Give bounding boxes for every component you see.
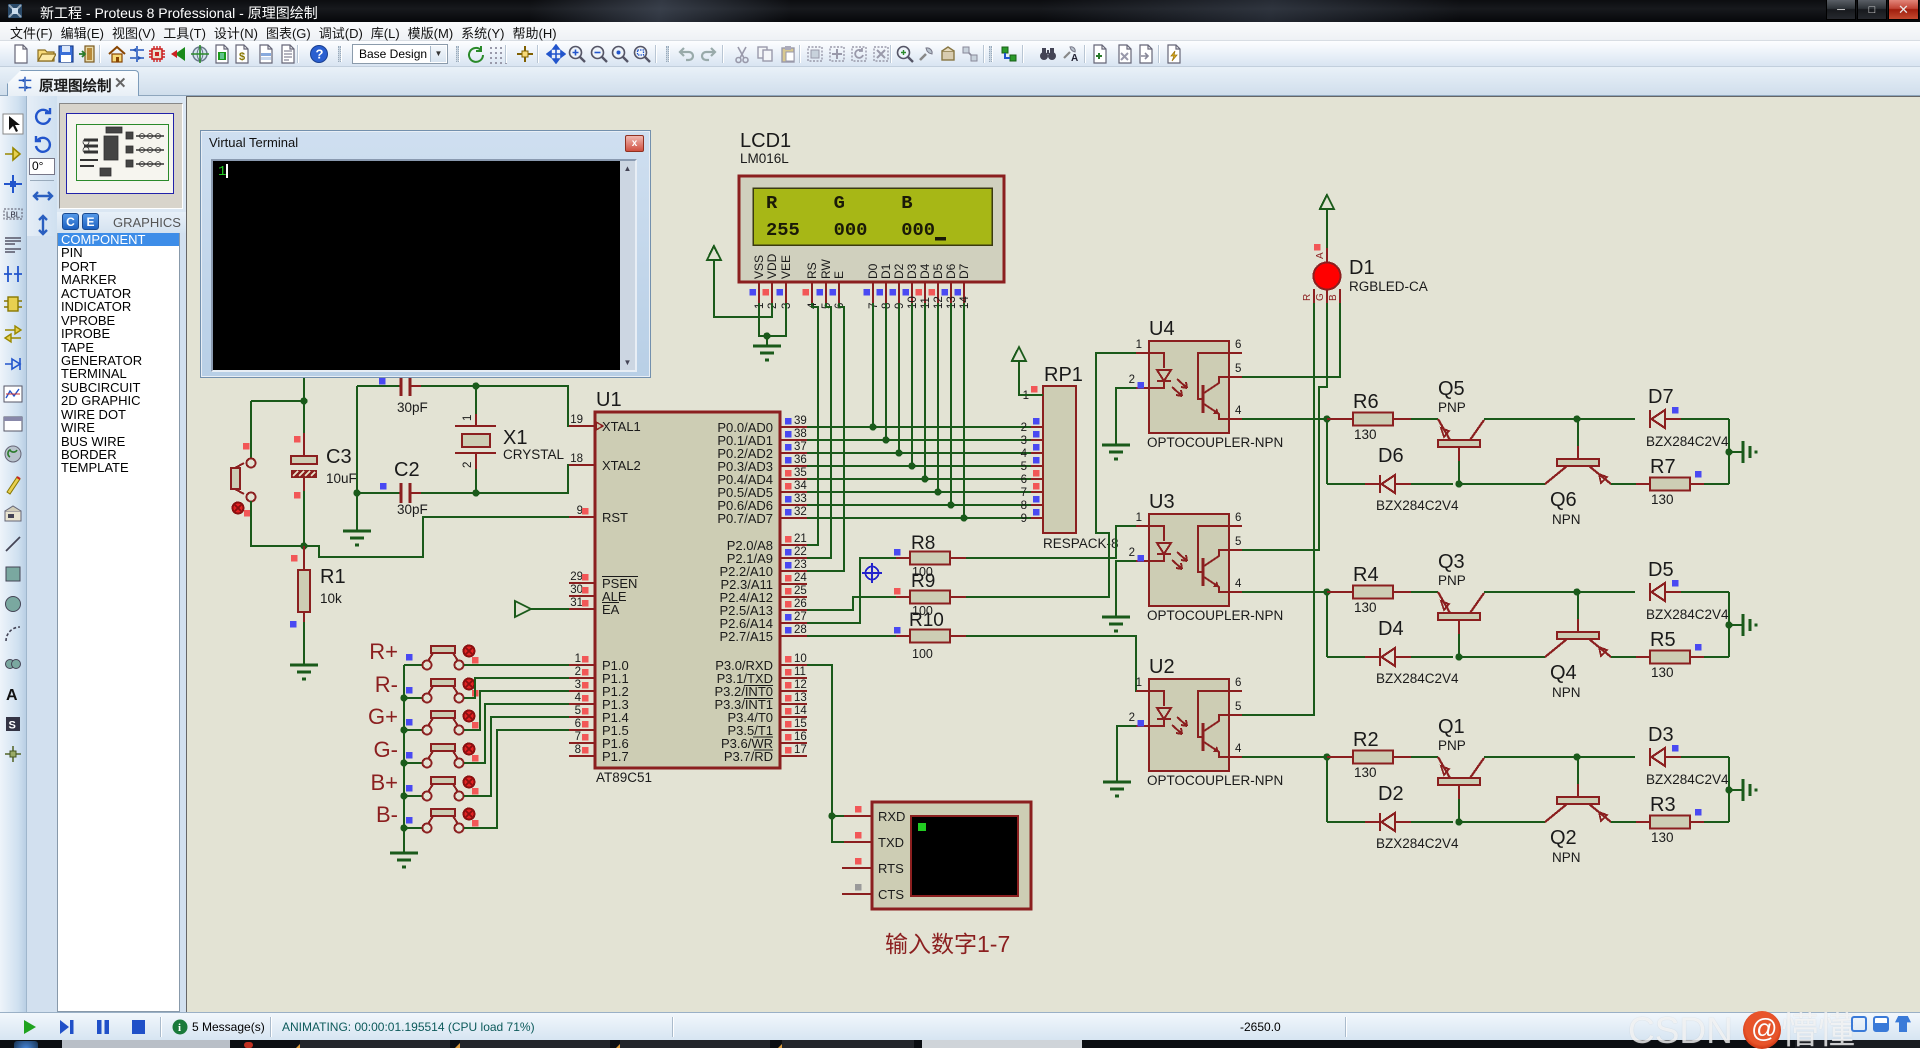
label R10 [909, 610, 944, 631]
label D6 BZX284C2V4 [1376, 498, 1459, 513]
node junction Q4 base [1573, 588, 1580, 595]
label RESPACK-8 [1043, 536, 1119, 551]
pin 8 of RP1 [1021, 496, 1043, 512]
node junction D7 [960, 514, 967, 521]
node junction Q3 base row [1455, 653, 1462, 660]
svg-text:1: 1 [1136, 339, 1142, 351]
svg-text:5: 5 [1235, 363, 1241, 375]
node junction rail B+ [400, 792, 407, 799]
ground row R4 [1729, 614, 1756, 636]
label Q5 [1438, 378, 1465, 400]
svg-text:12: 12 [794, 679, 807, 691]
label AT89C51 [596, 770, 652, 785]
wire opto pin4 to node R6 [1242, 418, 1327, 420]
svg-text:?: ? [316, 47, 324, 62]
svg-text:29: 29 [570, 571, 583, 583]
pin 21 P2.0/A8 of U1 [727, 533, 807, 553]
svg-text:R8: R8 [911, 533, 935, 554]
svg-text:TXD: TXD [878, 835, 904, 850]
svg-text:输入数字1-7: 输入数字1-7 [885, 931, 1010, 957]
label RP1 [1044, 364, 1083, 386]
label R5 130 [1651, 665, 1674, 680]
wire RP1 pin1 to power [1019, 361, 1043, 395]
svg-text:CRYSTAL: CRYSTAL [503, 447, 565, 462]
wire P0.6 row to RP1 pin 8 [807, 504, 1031, 506]
resistor R7 [1636, 471, 1729, 491]
wire right rail R4 row [1728, 592, 1730, 657]
label R2 [1353, 729, 1379, 751]
wire P0.7 row to RP1 pin 9 [807, 517, 1031, 519]
pin 6 E of LCD1 [830, 271, 847, 309]
svg-text:R G B: R G B [766, 192, 913, 214]
wire U1 pin26 to R9 [807, 597, 896, 610]
wire opto pin4 to node R2 [1242, 756, 1327, 758]
node junction Q2 base [1573, 753, 1580, 760]
label R10 100 [912, 647, 933, 661]
wire G+ to U1 pin 3 [464, 691, 569, 730]
svg-text:RXD: RXD [878, 809, 905, 824]
svg-text:9: 9 [1021, 513, 1027, 525]
node junction rail G- [400, 759, 407, 766]
node junction Q5 base row [1455, 480, 1462, 487]
pin 13 D6 of LCD1 [942, 263, 959, 309]
svg-text:30pF: 30pF [397, 400, 428, 415]
label 30pF C1 [397, 400, 428, 415]
wire Q6 emitter to R7 [1611, 483, 1636, 485]
pin TXD of terminal [844, 832, 904, 850]
pin 7 P1.6 of U1 [569, 731, 629, 751]
label D7 BZX284C2V4 [1646, 434, 1729, 449]
wire LCD D6 to P0.6 bus [950, 303, 952, 505]
node junction D0 [869, 423, 876, 430]
pin 32 P0.7/AD7 of U1 [717, 506, 807, 526]
diode D6 BZX284C2V4 [1327, 475, 1453, 493]
svg-text:35: 35 [794, 467, 807, 479]
transistor Q4 NPN [1545, 592, 1611, 657]
svg-text:5: 5 [1235, 701, 1241, 713]
wire E to U1 pin 23 [807, 303, 844, 571]
svg-text:U4: U4 [1149, 318, 1175, 340]
pin 5 P1.4 of U1 [569, 705, 629, 725]
led inside U2 [1149, 691, 1171, 726]
wire RXD TXD tie [832, 816, 844, 842]
wire LCD D0 to P0.0 bus [872, 303, 874, 427]
svg-text:VEE: VEE [779, 255, 793, 279]
wire R6 to Q5 emitter [1411, 418, 1438, 420]
svg-text:Q4: Q4 [1550, 662, 1577, 684]
origin marker [862, 563, 882, 583]
pin 13 P3.3/INT1 of U1 [714, 692, 807, 712]
svg-text:11: 11 [794, 666, 806, 678]
label 30pF C2 [397, 502, 428, 517]
node junction XTAL2 net [472, 489, 479, 496]
label Q4 [1550, 662, 1577, 684]
wire reset button top [251, 401, 304, 458]
wire VSS to ground [759, 303, 767, 336]
label D2 BZX284C2V4 [1376, 836, 1459, 851]
pin 5 RW of LCD1 [817, 259, 834, 309]
lcd text row1 R G B [766, 192, 913, 214]
svg-text:1: 1 [1136, 677, 1142, 689]
wire LCD D5 to P0.5 bus [937, 303, 939, 492]
label R9 100 [912, 604, 933, 618]
svg-text:36: 36 [794, 454, 807, 466]
pin 3 P1.2 of U1 [569, 679, 629, 699]
pin 38 P0.1/AD1 of U1 [717, 428, 807, 448]
pin 25 P2.4/A12 of U1 [720, 585, 808, 605]
capacitor C3 [291, 401, 317, 546]
svg-text:P0.7/AD7: P0.7/AD7 [717, 511, 773, 526]
wire Q5 collector to node [1484, 418, 1577, 420]
label U3 [1149, 491, 1175, 513]
wire XTAL1 to U1 pin 19 [476, 386, 569, 426]
wire R+ to U1 pin 1 [464, 664, 569, 666]
svg-text:D5: D5 [931, 263, 945, 279]
svg-text:7: 7 [575, 731, 581, 743]
wire P0.1 row to RP1 pin 3 [807, 439, 1031, 441]
resistor R3 [1636, 809, 1729, 829]
wire VCC to reset circuit (hidden under terminal window) [303, 378, 305, 401]
pin 1 of RP1 [1023, 386, 1043, 402]
wire diode row to Q6 [1459, 483, 1545, 485]
wire diode row to Q4 [1459, 656, 1545, 658]
pin 2 of U3 [1129, 547, 1149, 562]
svg-text:Q2: Q2 [1550, 827, 1577, 849]
pin 6 of U3 [1229, 512, 1242, 526]
node junction ground rail row R4 [1725, 621, 1732, 628]
svg-text:XTAL1: XTAL1 [602, 419, 641, 434]
svg-text:R-: R- [375, 672, 398, 697]
label R9 [911, 571, 935, 592]
svg-text:38: 38 [794, 428, 807, 440]
pin 28 P2.7/A15 of U1 [720, 624, 808, 644]
svg-text:R10: R10 [909, 610, 944, 631]
label Q1 PNP [1438, 738, 1466, 753]
svg-text:33: 33 [794, 493, 807, 505]
svg-text:VSS: VSS [752, 255, 766, 279]
svg-text:OPTOCOUPLER-NPN: OPTOCOUPLER-NPN [1147, 608, 1283, 623]
ground U3 [1102, 617, 1130, 631]
svg-text:D3: D3 [905, 263, 919, 279]
label R4 [1353, 564, 1379, 586]
label U4 [1149, 318, 1175, 340]
pin 17 P3.7/RD of U1 [724, 744, 807, 764]
svg-text:BZX284C2V4: BZX284C2V4 [1646, 772, 1729, 787]
pin 3 VEE of LCD1 [777, 255, 794, 309]
svg-text:5: 5 [1235, 536, 1241, 548]
svg-text:4: 4 [1021, 448, 1028, 460]
label 输入数字1-7 [885, 931, 1010, 957]
svg-text:VDD: VDD [765, 253, 779, 279]
pin 2 of RP1 [1021, 418, 1043, 434]
label U1 [596, 389, 622, 411]
svg-text:B-: B- [376, 802, 398, 827]
svg-text:30pF: 30pF [397, 502, 428, 517]
pin 22 P2.1/A9 of U1 [727, 546, 807, 566]
pin 1 VSS of LCD1 [750, 255, 767, 309]
svg-text:30: 30 [570, 584, 583, 596]
resistor R2 [1327, 751, 1411, 764]
pin 27 P2.6/A14 of U1 [720, 611, 808, 631]
ground U2 [1103, 782, 1131, 796]
label R7 130 [1651, 492, 1674, 507]
wire P0.3 row to RP1 pin 5 [807, 465, 1031, 467]
label D3 [1648, 724, 1674, 746]
label R2 130 [1354, 765, 1377, 780]
svg-text:R2: R2 [1353, 729, 1379, 751]
wire U3 pin2 to ground [1116, 561, 1136, 617]
push button B- [404, 809, 479, 833]
pin 4 P1.3 of U1 [569, 692, 629, 712]
svg-text:D4: D4 [918, 263, 932, 279]
label C2 [394, 459, 420, 481]
pin 34 P0.5/AD5 of U1 [717, 480, 807, 500]
svg-text:5: 5 [575, 705, 581, 717]
phototransistor inside U3 [1198, 526, 1229, 592]
pin 35 P0.4/AD4 of U1 [717, 467, 807, 487]
label OPTOCOUPLER-NPN U4 [1147, 435, 1283, 450]
svg-text:E: E [832, 271, 846, 279]
svg-text:130: 130 [1651, 492, 1674, 507]
label Q3 PNP [1438, 573, 1466, 588]
wire diode row to Q2 [1459, 821, 1545, 823]
svg-text:17: 17 [794, 744, 807, 756]
resistor R10 [894, 627, 966, 643]
label R3 130 [1651, 830, 1674, 845]
svg-text:5: 5 [1021, 461, 1027, 473]
label R6 [1353, 391, 1379, 413]
svg-text:D1: D1 [879, 263, 893, 279]
phototransistor inside U4 [1198, 353, 1229, 419]
wire LCD D7 to P0.7 bus [963, 303, 965, 518]
wire node to diode D7 [1577, 418, 1635, 420]
wire RS to U1 pin 21 [807, 303, 818, 545]
label R- [375, 672, 398, 697]
svg-text:RST: RST [602, 510, 628, 525]
pin 26 P2.5/A13 of U1 [720, 598, 808, 618]
svg-text:32: 32 [794, 506, 807, 518]
label D7 [1648, 386, 1674, 408]
resistor R1 [290, 546, 310, 628]
terminal screen [911, 816, 1018, 896]
wire R8 to U3 pin1 [966, 526, 1136, 558]
wire R9 to U4 pin1 [966, 353, 1136, 597]
svg-text:24: 24 [794, 572, 807, 584]
pin CTS of terminal [842, 884, 904, 902]
pin 8 D1 of LCD1 [877, 263, 894, 309]
pin 11 D4 of LCD1 [916, 263, 933, 309]
pin 5 of U2 [1229, 701, 1242, 715]
svg-text:BZX284C2V4: BZX284C2V4 [1376, 498, 1459, 513]
svg-text:PNP: PNP [1438, 573, 1466, 588]
pin 4 of U3 [1229, 578, 1242, 592]
phototransistor inside U2 [1198, 691, 1229, 757]
node junction R4 left [1323, 588, 1330, 595]
node junction Q6 base [1573, 415, 1580, 422]
pin 30 ALE of U1 [569, 584, 627, 604]
pin 14 P3.4/T0 of U1 [727, 705, 807, 725]
wire EA terminal arrow [515, 601, 569, 617]
svg-text:D3: D3 [1648, 724, 1674, 746]
label D4 [1378, 618, 1404, 640]
pin 9 D2 of LCD1 [890, 263, 907, 309]
svg-text:4: 4 [1235, 405, 1242, 417]
label LM016L [740, 151, 789, 166]
node junction Q1 base row [1455, 818, 1462, 825]
svg-text:255 000 000: 255 000 000 [766, 219, 935, 241]
pin 10 P3.0/RXD of U1 [715, 653, 807, 673]
pin 1 of U3 [1136, 512, 1149, 526]
svg-text:1: 1 [575, 653, 581, 665]
svg-text:NPN: NPN [1552, 850, 1581, 865]
wire node to diode D5 [1577, 591, 1635, 593]
pin 19 XTAL1 of U1 [569, 414, 641, 434]
svg-text:6: 6 [1235, 677, 1241, 689]
node junction reset-bottom [300, 542, 307, 549]
pin 39 P0.0/AD0 of U1 [717, 415, 807, 435]
power arrow RP1 [1012, 347, 1026, 362]
pin 18 XTAL2 of U1 [569, 453, 641, 473]
svg-text:23: 23 [794, 559, 807, 571]
lcd LCD1 LM016L body [739, 176, 1004, 282]
svg-text:D2: D2 [892, 263, 906, 279]
transistor Q5 PNP [1438, 419, 1484, 484]
pin 3 of RP1 [1021, 431, 1043, 447]
optocoupler U3 body [1149, 514, 1229, 606]
label D5 [1648, 559, 1674, 581]
pin 6 of U2 [1229, 677, 1242, 691]
svg-text:D7: D7 [957, 263, 971, 279]
light arrows inside U2 [1172, 717, 1187, 734]
label D1 [1349, 257, 1375, 279]
svg-text:Q1: Q1 [1438, 716, 1465, 738]
svg-text:39: 39 [794, 415, 807, 427]
wire Q3 collector to node [1484, 591, 1577, 593]
terminal VT1 body [872, 802, 1031, 909]
svg-text:G+: G+ [368, 704, 398, 729]
svg-text:3: 3 [575, 679, 581, 691]
wire D1 R to U2 pin5 [1242, 303, 1314, 715]
svg-text:D6: D6 [1378, 445, 1404, 467]
node junction D4 [921, 475, 928, 482]
wire LCD D2 to P0.2 bus [898, 303, 900, 453]
wire U1 pin27 to R8 [807, 558, 896, 623]
wire G- to U1 pin 4 [464, 704, 569, 763]
svg-text:2: 2 [1129, 547, 1135, 559]
svg-text:18: 18 [570, 453, 583, 465]
pin 4 of U4 [1229, 405, 1242, 419]
diode D4 BZX284C2V4 [1327, 648, 1453, 666]
svg-text:6: 6 [1021, 474, 1027, 486]
led inside U3 [1149, 526, 1171, 561]
svg-text:XTAL2: XTAL2 [602, 458, 641, 473]
label Q4 NPN [1552, 685, 1581, 700]
transistor Q6 NPN [1545, 419, 1611, 484]
transistor Q3 PNP [1438, 592, 1484, 657]
label CRYSTAL [503, 447, 565, 462]
diode D3 BZX284C2V4 [1635, 745, 1729, 766]
svg-text:CTS: CTS [878, 887, 904, 902]
svg-text:2: 2 [1129, 374, 1135, 386]
push button RESET [231, 443, 256, 517]
svg-text:15: 15 [794, 718, 807, 730]
svg-text:D0: D0 [866, 263, 880, 279]
pin 7 D0 of LCD1 [864, 263, 881, 309]
node junction R6 left [1323, 415, 1330, 422]
node junction ground rail row R6 [1725, 448, 1732, 455]
power arrow D1 [1320, 195, 1334, 210]
svg-text:8: 8 [1021, 500, 1027, 512]
svg-text:28: 28 [794, 624, 807, 636]
label 10k [320, 591, 342, 606]
node junction rail R- [400, 694, 407, 701]
svg-text:R1: R1 [320, 566, 346, 588]
label Q3 [1438, 551, 1465, 573]
terminal cursor [918, 823, 926, 831]
label R4 130 [1354, 600, 1377, 615]
svg-text:G-: G- [374, 737, 398, 762]
svg-text:R7: R7 [1650, 456, 1676, 478]
svg-text:U3: U3 [1149, 491, 1175, 513]
ground U4 [1102, 445, 1130, 459]
push button B+ [404, 777, 479, 801]
svg-text:LBL: LBL [6, 211, 21, 220]
svg-text:R4: R4 [1353, 564, 1379, 586]
pin 1 P1.0 of U1 [569, 653, 629, 673]
svg-text:i: i [178, 1022, 181, 1034]
wire VDD to power [714, 260, 772, 317]
pin 15 P3.5/T1 of U1 [727, 718, 807, 738]
svg-text:RS: RS [805, 262, 819, 279]
pin 29 PSEN of U1 [569, 571, 638, 591]
svg-text:P1.7: P1.7 [602, 749, 629, 764]
node junction R2 left [1323, 753, 1330, 760]
capacitor C2 [357, 483, 476, 503]
pin 1 of U2 [1136, 677, 1149, 691]
label R1 [320, 566, 346, 588]
wire node down to diode row D4 [1326, 592, 1328, 657]
wire R2 to Q1 emitter [1411, 756, 1438, 758]
pin 16 P3.6/WR of U1 [721, 731, 807, 751]
pin 11 P3.1/TXD of U1 [717, 666, 807, 686]
diode D5 BZX284C2V4 [1635, 580, 1729, 601]
svg-text:RP1: RP1 [1044, 364, 1083, 386]
label R8 [911, 533, 935, 554]
svg-text:A: A [6, 687, 18, 704]
svg-text:R6: R6 [1353, 391, 1379, 413]
wire LCD D4 to P0.4 bus [924, 303, 926, 479]
ground LCD [753, 346, 781, 360]
diode D2 BZX284C2V4 [1327, 813, 1453, 831]
wire LCD D1 to P0.1 bus [885, 303, 887, 440]
wire VEE to ground [767, 303, 786, 336]
svg-text:OPTOCOUPLER-NPN: OPTOCOUPLER-NPN [1147, 435, 1283, 450]
svg-text:130: 130 [1354, 427, 1377, 442]
svg-text:P3.7/RD: P3.7/RD [724, 749, 773, 764]
wire R10 to U2 pin1 [966, 636, 1149, 691]
label Q5 PNP [1438, 400, 1466, 415]
node junction rail B- [400, 824, 407, 831]
svg-text:7: 7 [1021, 487, 1027, 499]
svg-text:4: 4 [1235, 743, 1242, 755]
svg-text:NPN: NPN [1552, 685, 1581, 700]
svg-text:27: 27 [794, 611, 807, 623]
node junction XTAL1 net [472, 382, 479, 389]
label X1 [503, 427, 527, 449]
crystal X1 [455, 386, 496, 493]
svg-text:RW: RW [819, 259, 833, 279]
svg-text:21: 21 [794, 533, 807, 545]
